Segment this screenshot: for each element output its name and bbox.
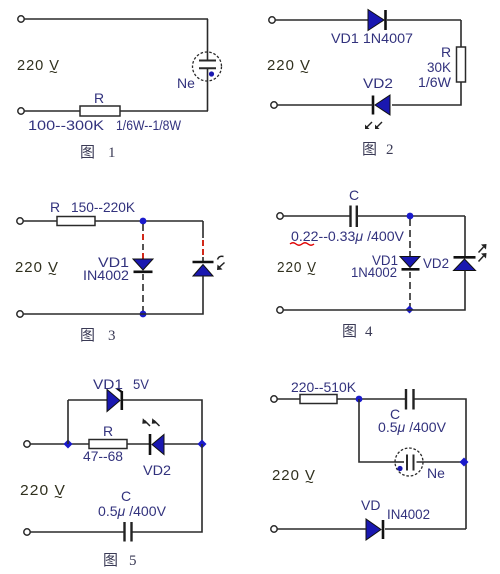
wire (up from node) <box>67 400 69 444</box>
label 220V <box>20 482 66 506</box>
svg-text:0.22--0.33μ /400V: 0.22--0.33μ /400V <box>291 228 405 244</box>
capacitor C <box>351 206 357 228</box>
svg-text:3: 3 <box>108 328 116 344</box>
label VD1 1N4002 <box>351 252 398 280</box>
node C4a <box>407 213 414 220</box>
zener diode VD1 <box>107 389 122 412</box>
LED VD2 <box>454 257 476 270</box>
svg-text:IN4002: IN4002 <box>387 506 430 522</box>
svg-text:1/6W: 1/6W <box>418 74 452 90</box>
svg-text:~: ~ <box>305 474 315 491</box>
terminal T3a <box>17 218 23 224</box>
wire <box>164 443 202 445</box>
svg-text:220--510K: 220--510K <box>291 379 357 395</box>
value label 100--300K 1/6W--1/8W <box>28 117 182 133</box>
wire <box>24 110 80 112</box>
svg-text:VD1: VD1 <box>93 376 123 392</box>
svg-text:图: 图 <box>80 327 95 344</box>
svg-text:VD2: VD2 <box>423 255 449 271</box>
svg-text:~: ~ <box>300 64 310 81</box>
value label 0.5u/400V <box>378 419 447 435</box>
label 220V <box>17 57 60 81</box>
svg-text:~: ~ <box>49 64 59 81</box>
svg-text:100--300K: 100--300K <box>28 117 105 133</box>
label IN4002 <box>387 506 430 522</box>
wire <box>127 443 150 445</box>
resistor R <box>57 217 95 226</box>
LED arrows of VD2 <box>365 122 382 129</box>
svg-text:C: C <box>349 187 359 203</box>
wire <box>387 19 461 21</box>
label VD1 IN4002 <box>83 254 129 283</box>
label C <box>390 406 400 422</box>
label Ne <box>427 465 445 481</box>
capacitor C <box>406 389 414 410</box>
label R 30K 1/6W <box>418 44 452 90</box>
svg-text:R: R <box>94 90 104 106</box>
diode VD1 <box>133 259 153 272</box>
value label 0.22--0.33u/400V <box>290 228 405 245</box>
wire (dashed branch) <box>409 219 411 256</box>
terminal T4a <box>277 213 283 219</box>
label 220V <box>15 259 59 283</box>
svg-text:图: 图 <box>342 323 357 340</box>
diode VD2 <box>373 95 390 115</box>
svg-text:0.5μ /400V: 0.5μ /400V <box>98 503 167 519</box>
neon lamp Ne <box>193 52 222 81</box>
resistor R <box>80 106 120 116</box>
value label 220--510K <box>291 379 357 395</box>
node N5b <box>198 440 207 449</box>
svg-text:VD2: VD2 <box>143 462 171 478</box>
wire <box>23 276 203 314</box>
wire <box>460 20 462 47</box>
diode VD1 <box>400 257 420 270</box>
value label 47--68 <box>83 448 123 464</box>
value label 0.5u/400V <box>98 503 167 519</box>
svg-text:图: 图 <box>362 141 377 158</box>
node N6a <box>356 396 363 403</box>
label R <box>103 423 113 439</box>
svg-text:1/6W--1/8W: 1/6W--1/8W <box>116 117 182 133</box>
wire <box>277 398 300 400</box>
wire (right down) <box>132 444 202 532</box>
terminal T2b <box>271 102 277 108</box>
resistor 220--510K <box>300 395 337 404</box>
capacitor C <box>125 522 132 542</box>
svg-text:4: 4 <box>365 324 373 340</box>
svg-text:R: R <box>50 199 60 215</box>
LED VD2 <box>150 434 164 455</box>
svg-text:5: 5 <box>129 553 137 569</box>
label 220V <box>277 259 317 283</box>
svg-text:~: ~ <box>48 266 58 283</box>
wire <box>95 220 203 222</box>
caption 图4 <box>342 323 373 340</box>
node N6b <box>460 458 469 467</box>
resistor R (30K) <box>457 47 466 82</box>
wire <box>283 271 465 311</box>
node A <box>140 218 147 225</box>
terminal T5a <box>24 441 30 447</box>
label VD1 1N4007 <box>331 30 413 46</box>
caption 图3 <box>80 327 116 344</box>
svg-text:Ne: Ne <box>177 75 195 91</box>
svg-text:VD2: VD2 <box>363 75 393 91</box>
wire (dashed branch to VD1) <box>142 224 144 259</box>
wire <box>392 82 461 105</box>
caption 图5 <box>103 552 137 569</box>
svg-text:IN4002: IN4002 <box>83 267 129 283</box>
LED arrows of VD2 <box>479 244 487 262</box>
wire (top branch left) <box>68 399 107 401</box>
wire (dashed below VD1) <box>142 274 144 312</box>
wire (right branch top) <box>202 221 204 261</box>
wire <box>207 69 209 112</box>
node C4b <box>406 306 414 314</box>
wire <box>23 220 57 222</box>
svg-text:2: 2 <box>386 142 394 158</box>
label VD2 <box>423 255 449 271</box>
resistor R <box>89 440 127 449</box>
terminal T6a <box>271 396 277 402</box>
terminal T1b <box>18 108 24 114</box>
label VD2 <box>143 462 171 478</box>
label 220V <box>267 57 311 81</box>
svg-text:VD: VD <box>361 497 380 513</box>
wire <box>120 110 208 112</box>
wire (right branch) <box>464 216 466 256</box>
terminal T3b <box>17 311 23 317</box>
wire (dashed below VD1) <box>409 272 411 307</box>
svg-text:Ne: Ne <box>427 465 445 481</box>
terminal T6b <box>271 526 277 532</box>
svg-text:图: 图 <box>103 552 118 569</box>
label 220V <box>272 467 316 491</box>
LED arrows <box>217 256 225 270</box>
terminal T1a <box>18 16 24 22</box>
svg-text:1: 1 <box>108 145 116 161</box>
svg-text:R: R <box>441 44 451 60</box>
svg-text:R: R <box>103 423 113 439</box>
label Ne <box>177 75 195 91</box>
wire <box>385 528 466 530</box>
svg-text:~: ~ <box>307 266 317 283</box>
wire (left branch down) <box>359 399 395 462</box>
neon lamp Ne <box>395 448 466 476</box>
label R <box>94 90 104 106</box>
diode VD1 <box>368 10 386 31</box>
wire <box>277 528 366 530</box>
label VD2 <box>363 75 393 91</box>
svg-text:150--220K: 150--220K <box>71 199 136 215</box>
label C <box>121 488 131 504</box>
label VD <box>361 497 380 513</box>
wire <box>30 531 124 533</box>
svg-text:~: ~ <box>54 489 64 506</box>
wire <box>415 399 467 529</box>
node B <box>140 311 147 318</box>
svg-text:C: C <box>121 488 131 504</box>
wire <box>207 19 209 53</box>
wire <box>24 18 208 20</box>
svg-text:VD1 1N4007: VD1 1N4007 <box>331 30 413 46</box>
svg-text:30K: 30K <box>427 59 452 75</box>
LED D2 <box>193 262 214 276</box>
terminal T2a <box>269 17 275 23</box>
caption 图1 <box>80 144 116 161</box>
svg-text:1N4002: 1N4002 <box>351 264 397 280</box>
LED arrows of VD2 <box>142 418 159 426</box>
terminal T4b <box>277 307 283 313</box>
wire <box>283 215 350 217</box>
diode VD <box>366 519 383 540</box>
wire <box>357 215 465 217</box>
terminal T5b <box>24 529 30 535</box>
svg-text:图: 图 <box>80 144 95 161</box>
label VD1 5V <box>93 376 150 392</box>
node N5a <box>64 440 73 449</box>
svg-text:5V: 5V <box>133 376 150 392</box>
wire <box>277 104 373 106</box>
svg-text:0.5μ /400V: 0.5μ /400V <box>378 419 447 435</box>
wire <box>30 443 89 445</box>
label R 150--220K <box>50 199 136 215</box>
wire <box>337 398 405 400</box>
svg-text:47--68: 47--68 <box>83 448 123 464</box>
wire (top branch right) <box>123 400 202 444</box>
label C <box>349 187 359 203</box>
wire <box>275 19 368 21</box>
caption 图2 <box>362 141 394 158</box>
